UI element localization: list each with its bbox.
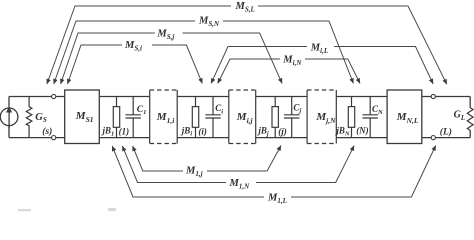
coupling box M1i dashed <box>150 90 178 144</box>
wire bottom node-i segment <box>177 137 229 139</box>
wire bottom S segment <box>9 137 65 139</box>
coupling box MS1 <box>65 90 100 144</box>
svg-text:C1: C1 <box>137 105 147 116</box>
svg-text:MS,N: MS,N <box>198 16 220 29</box>
wire top node-L segment <box>422 96 470 98</box>
svg-text:Mi,L: Mi,L <box>310 43 328 56</box>
caption remnant marks <box>18 208 116 211</box>
svg-text:Ci: Ci <box>215 103 223 115</box>
wire top node-j segment <box>256 96 307 98</box>
capacitor Cj <box>284 97 299 138</box>
svg-text:MS,j: MS,j <box>156 29 174 42</box>
wire top node-N segment <box>336 96 387 98</box>
wire bottom node-L segment <box>422 137 470 139</box>
svg-text:Cj: Cj <box>293 102 301 114</box>
susceptance jBi <box>192 97 198 138</box>
coupling box Mij dashed <box>229 90 256 144</box>
current source IS <box>0 107 18 129</box>
coupling arc M_Si <box>68 45 123 84</box>
conductance GS zigzag <box>26 97 32 138</box>
coupling arc M_SL <box>47 6 231 84</box>
node S port circle top <box>52 94 56 98</box>
capacitor CN <box>363 97 378 138</box>
wire left vertical <box>8 97 10 138</box>
node L port circle bottom <box>431 136 435 140</box>
coupling arc M_iL <box>211 47 307 84</box>
svg-text:(i): (i) <box>198 127 207 137</box>
coupling arc M_SN <box>54 21 195 84</box>
svg-text:jB1: jB1 <box>101 125 115 137</box>
node L port circle top <box>431 94 435 98</box>
wire right vertical <box>469 97 471 138</box>
svg-text:(j): (j) <box>278 127 287 137</box>
load GL zigzag <box>467 108 473 131</box>
capacitor Ci <box>205 97 220 138</box>
svg-text:GL: GL <box>454 110 466 122</box>
svg-text:GS: GS <box>35 112 47 124</box>
wire bottom node-N segment <box>336 137 387 139</box>
svg-text:jBi: jBi <box>180 125 193 137</box>
svg-text:MS,L: MS,L <box>235 1 255 14</box>
svg-text:(s): (s) <box>42 126 52 137</box>
wire top S segment <box>9 96 65 98</box>
wire bottom node1 segment <box>99 137 149 139</box>
svg-text:M1,j: M1,j <box>185 166 203 179</box>
wire top node-i segment <box>177 96 229 98</box>
susceptance jB1 <box>113 97 119 138</box>
wire bottom node-j segment <box>256 137 307 139</box>
coupling arc M_1N <box>122 146 226 183</box>
svg-text:M1,N: M1,N <box>229 178 251 191</box>
capacitor C1 <box>126 97 141 138</box>
node S port circle bottom <box>52 136 56 140</box>
svg-text:(L): (L) <box>440 127 452 138</box>
coupling box MjN dashed <box>307 90 336 144</box>
wire top node1 segment <box>99 96 149 98</box>
svg-text:(1): (1) <box>119 127 130 137</box>
susceptance jBN <box>348 97 354 138</box>
svg-text:MS,i: MS,i <box>124 40 142 53</box>
susceptance jBj <box>272 97 278 138</box>
coupling arc M_1j <box>133 146 183 171</box>
svg-text:jBj: jBj <box>256 125 269 137</box>
svg-text:Mi,N: Mi,N <box>282 55 302 68</box>
coupling arc M_1L <box>112 146 264 197</box>
svg-text:(N): (N) <box>356 125 369 135</box>
coupling arc M_Sj <box>61 33 155 84</box>
coupling box MNL <box>387 90 422 144</box>
coupling arc M_iN <box>218 59 280 83</box>
svg-text:M1,L: M1,L <box>267 193 287 206</box>
